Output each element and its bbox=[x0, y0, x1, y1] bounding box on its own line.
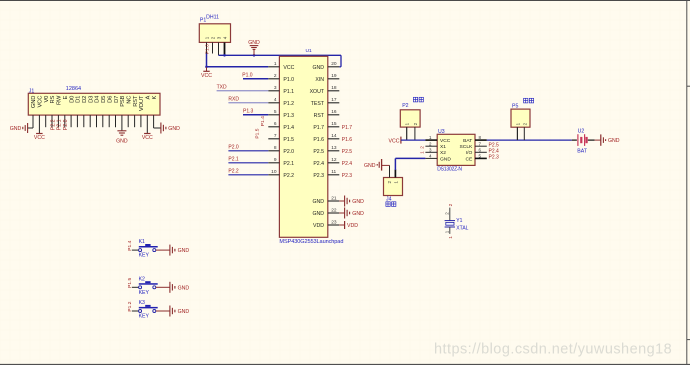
svg-text:VCC: VCC bbox=[440, 138, 451, 144]
header P2 buzzer bbox=[400, 97, 423, 127]
pushbutton K3 KEY bbox=[127, 300, 190, 320]
P5 pin wires down to BAT net bbox=[517, 127, 524, 140]
wire U3 BAT to battery bbox=[487, 139, 572, 141]
svg-text:U3: U3 bbox=[438, 129, 445, 135]
P2 pin wires down to VCC net bbox=[407, 127, 415, 140]
svg-text:17: 17 bbox=[331, 97, 337, 103]
svg-text:GND: GND bbox=[31, 96, 37, 108]
wire J4 pin2 to ground port bbox=[382, 165, 390, 177]
svg-text:P1.3: P1.3 bbox=[243, 109, 254, 115]
wire J1 pin1 to ground bbox=[28, 127, 33, 129]
svg-text:23: 23 bbox=[331, 219, 337, 225]
RTC U3 DS1302 bbox=[437, 129, 475, 173]
svg-text:P1.4: P1.4 bbox=[260, 116, 266, 126]
wire net P1.3 to U1 pin5 bbox=[243, 114, 268, 116]
svg-text:P2.2: P2.2 bbox=[228, 169, 239, 175]
svg-text:J1: J1 bbox=[29, 88, 35, 94]
svg-text:22: 22 bbox=[331, 207, 337, 213]
svg-text:GND: GND bbox=[352, 211, 364, 217]
svg-text:12864: 12864 bbox=[66, 86, 81, 92]
svg-text:VCC: VCC bbox=[389, 138, 400, 144]
wire J4 pin1 to U3 GND pin4 bbox=[395, 158, 425, 177]
svg-text:K1: K1 bbox=[139, 239, 145, 245]
wire DH11 pin1 down to VCC node bbox=[206, 54, 208, 67]
svg-text:Y1: Y1 bbox=[456, 218, 462, 224]
svg-text:I/O: I/O bbox=[466, 150, 473, 156]
VDD power port U1 pin23 bbox=[339, 221, 358, 229]
ground earth symbol above wire near DH11 bbox=[248, 40, 260, 56]
svg-text:16: 16 bbox=[331, 109, 337, 115]
svg-text:GND: GND bbox=[352, 199, 364, 205]
svg-text:K: K bbox=[152, 95, 158, 99]
svg-text:P2.4: P2.4 bbox=[342, 161, 353, 167]
svg-text:P1.2: P1.2 bbox=[283, 101, 294, 107]
svg-text:XTAL: XTAL bbox=[456, 226, 468, 232]
U3 left pin stubs bbox=[425, 135, 451, 162]
svg-text:TEST: TEST bbox=[311, 101, 325, 107]
svg-text:19: 19 bbox=[331, 73, 337, 79]
svg-text:P2.4: P2.4 bbox=[489, 149, 500, 155]
wire J1 pin K to ground bbox=[154, 127, 161, 129]
svg-text:RW: RW bbox=[57, 95, 63, 105]
svg-text:BAT: BAT bbox=[463, 138, 472, 144]
U1 left pin stubs and numbers bbox=[268, 61, 294, 179]
svg-text:P1.0: P1.0 bbox=[283, 77, 294, 83]
svg-text:RST: RST bbox=[133, 95, 139, 107]
wire net P2.2 to U1 pin10 bbox=[228, 174, 268, 176]
svg-text:VCC: VCC bbox=[142, 135, 153, 141]
svg-text:VDD: VDD bbox=[347, 223, 358, 229]
ground power port left of J4 bbox=[364, 159, 382, 171]
VCC power port below DH11 bbox=[201, 67, 212, 79]
svg-text:NC: NC bbox=[126, 96, 132, 104]
svg-text:P2.5: P2.5 bbox=[313, 149, 324, 155]
svg-text:D7: D7 bbox=[114, 96, 120, 103]
svg-text:P1.0: P1.0 bbox=[205, 44, 211, 54]
svg-text:GND: GND bbox=[312, 65, 324, 71]
svg-text:9: 9 bbox=[274, 157, 277, 163]
svg-text:P2.2: P2.2 bbox=[283, 173, 294, 179]
svg-text:VCC: VCC bbox=[283, 65, 294, 71]
svg-text:GND: GND bbox=[440, 156, 451, 162]
svg-text:X1: X1 bbox=[440, 144, 446, 150]
wire VCC node to U1 pin1 bbox=[207, 66, 269, 68]
svg-text:2: 2 bbox=[419, 146, 425, 149]
VCC power port J1 pin2 bbox=[34, 134, 45, 142]
svg-text:P2: P2 bbox=[402, 103, 408, 109]
svg-text:20: 20 bbox=[331, 61, 337, 67]
svg-text:8: 8 bbox=[274, 145, 277, 151]
svg-text:RXD: RXD bbox=[228, 97, 239, 103]
svg-text:P1.6: P1.6 bbox=[313, 137, 324, 143]
pushbutton K2 KEY bbox=[127, 276, 190, 296]
svg-text:GND: GND bbox=[608, 138, 620, 144]
svg-text:3: 3 bbox=[274, 85, 277, 91]
svg-text:P1.6: P1.6 bbox=[342, 137, 353, 143]
svg-text:A: A bbox=[146, 95, 152, 99]
svg-text:5: 5 bbox=[274, 109, 277, 115]
svg-text:P2.2: P2.2 bbox=[50, 119, 56, 130]
DH11 pin stubs bbox=[207, 42, 225, 55]
svg-text:P2.1: P2.1 bbox=[228, 157, 239, 163]
wire ground net along top to U1 pin20 bbox=[219, 55, 342, 67]
svg-text:TXD: TXD bbox=[217, 85, 227, 91]
svg-text:D6: D6 bbox=[107, 96, 113, 103]
svg-text:1: 1 bbox=[448, 236, 454, 239]
svg-text:U2: U2 bbox=[578, 129, 585, 135]
svg-text:14: 14 bbox=[331, 133, 337, 139]
wire net TXD to U1 pin3 bbox=[217, 90, 269, 92]
wire net P2.1 to U1 pin9 bbox=[228, 162, 268, 164]
svg-text:18: 18 bbox=[331, 85, 337, 91]
svg-text:CE: CE bbox=[466, 156, 474, 162]
sensor P1 DH11 bbox=[199, 14, 230, 42]
svg-text:VCC: VCC bbox=[34, 135, 45, 141]
svg-text:P1.4: P1.4 bbox=[283, 125, 294, 131]
svg-text:GND: GND bbox=[312, 199, 324, 205]
header J4 buzzer bbox=[384, 178, 403, 207]
svg-text:P1.7: P1.7 bbox=[342, 125, 353, 131]
svg-text:P1.3: P1.3 bbox=[283, 113, 294, 119]
svg-text:GND: GND bbox=[168, 126, 180, 132]
svg-text:P2.5: P2.5 bbox=[342, 149, 353, 155]
VCC power port J1 pin A bbox=[142, 134, 153, 142]
MCU U1 MSP430G2553 Launchpad bbox=[279, 48, 343, 245]
svg-text:GND: GND bbox=[248, 40, 260, 46]
svg-text:21: 21 bbox=[331, 195, 337, 201]
battery U2 BAT bbox=[572, 129, 595, 155]
svg-text:KEY: KEY bbox=[139, 253, 150, 259]
svg-text:P2.4: P2.4 bbox=[313, 161, 324, 167]
svg-text:GND: GND bbox=[178, 309, 190, 315]
junction DH11 pin4 on ground net bbox=[223, 54, 226, 57]
svg-text:E: E bbox=[63, 95, 69, 99]
svg-text:10: 10 bbox=[271, 169, 277, 175]
svg-text:P1.1: P1.1 bbox=[283, 89, 294, 95]
svg-text:12: 12 bbox=[331, 157, 337, 163]
svg-text:DS1302Z-N: DS1302Z-N bbox=[437, 166, 462, 172]
svg-text:GND: GND bbox=[116, 138, 128, 144]
connector J1 12864 LCD header bbox=[28, 86, 160, 115]
svg-text:P2.0: P2.0 bbox=[63, 119, 69, 130]
svg-text:VDD: VDD bbox=[313, 223, 324, 229]
wire net P1.0 to U1 pin2 bbox=[243, 78, 268, 80]
VCC power port left of U3 bbox=[389, 137, 401, 145]
svg-text:GND: GND bbox=[312, 211, 324, 217]
J1 pin stubs bbox=[33, 115, 154, 133]
svg-text:P5: P5 bbox=[512, 104, 518, 110]
svg-text:15: 15 bbox=[331, 121, 337, 127]
svg-text:U1: U1 bbox=[306, 48, 312, 54]
svg-text:VCC: VCC bbox=[201, 73, 212, 79]
svg-text:DH11: DH11 bbox=[206, 14, 219, 20]
svg-text:KEY: KEY bbox=[139, 290, 150, 296]
svg-text:D3: D3 bbox=[88, 96, 94, 103]
ground power port left of J1 bbox=[10, 123, 28, 133]
svg-text:GND: GND bbox=[10, 126, 22, 132]
svg-text:D1: D1 bbox=[76, 96, 82, 103]
svg-text:GND: GND bbox=[178, 285, 190, 291]
svg-text:4: 4 bbox=[274, 97, 277, 103]
svg-text:V0: V0 bbox=[44, 96, 50, 103]
wire net P2.0 to U1 pin8 bbox=[228, 150, 268, 152]
svg-text:X2: X2 bbox=[440, 150, 446, 156]
svg-text:6: 6 bbox=[274, 121, 277, 127]
svg-text:2: 2 bbox=[274, 73, 277, 79]
svg-text:D4: D4 bbox=[95, 95, 101, 103]
svg-text:P1.2: P1.2 bbox=[127, 301, 133, 311]
svg-text:MSP430G2553Launchpad: MSP430G2553Launchpad bbox=[279, 239, 343, 245]
svg-text:KEY: KEY bbox=[139, 314, 150, 320]
svg-text:D5: D5 bbox=[101, 96, 107, 103]
svg-text:P2.3: P2.3 bbox=[313, 173, 324, 179]
svg-text:P1.5: P1.5 bbox=[283, 137, 294, 143]
svg-text:P2.3: P2.3 bbox=[342, 173, 353, 179]
svg-text:BAT: BAT bbox=[577, 149, 588, 155]
svg-text:P2.5: P2.5 bbox=[489, 143, 500, 149]
svg-text:SCLK: SCLK bbox=[460, 144, 474, 150]
junction VCC node bbox=[205, 66, 208, 69]
svg-text:P2.1: P2.1 bbox=[57, 119, 63, 130]
ground power port U1 pin21 bbox=[339, 196, 364, 207]
svg-text:P2.0: P2.0 bbox=[283, 149, 294, 155]
ground power port right of battery bbox=[595, 134, 620, 145]
svg-text:D2: D2 bbox=[82, 96, 88, 103]
svg-text:11: 11 bbox=[331, 169, 336, 175]
svg-text:P1.7: P1.7 bbox=[313, 125, 324, 131]
pushbutton K1 KEY bbox=[127, 239, 190, 259]
crystal Y1 XTAL bbox=[444, 203, 468, 238]
svg-text:K3: K3 bbox=[139, 300, 145, 306]
svg-text:P1.4: P1.4 bbox=[127, 240, 133, 250]
svg-text:P2.0: P2.0 bbox=[228, 145, 239, 151]
svg-text:PSB: PSB bbox=[120, 95, 126, 106]
U1 bottom-right pin stubs 21 22 23 bbox=[312, 195, 339, 229]
svg-text:GND: GND bbox=[178, 248, 190, 254]
svg-text:VCC: VCC bbox=[38, 96, 44, 108]
svg-text:P1.0: P1.0 bbox=[242, 73, 253, 79]
svg-text:RST: RST bbox=[314, 113, 325, 119]
svg-text:1: 1 bbox=[419, 151, 425, 154]
svg-text:K2: K2 bbox=[139, 276, 145, 282]
svg-text:D0: D0 bbox=[69, 96, 75, 103]
svg-text:P2.1: P2.1 bbox=[283, 161, 294, 167]
svg-text:GND: GND bbox=[364, 163, 376, 169]
svg-text:XOUT: XOUT bbox=[310, 89, 325, 95]
header P5 buzzer bbox=[511, 98, 534, 127]
ground earth symbol J1 PSB pin bbox=[116, 131, 128, 145]
U1 right pin stubs and numbers bbox=[310, 61, 340, 179]
svg-text:1: 1 bbox=[274, 61, 277, 67]
svg-text:RS: RS bbox=[50, 95, 56, 103]
ground power port right of J1 bbox=[161, 123, 180, 134]
wire net RXD to U1 pin4 bbox=[228, 102, 268, 104]
svg-text:P1.5: P1.5 bbox=[254, 128, 260, 138]
svg-text:13: 13 bbox=[331, 145, 337, 151]
svg-text:VOUT: VOUT bbox=[139, 95, 145, 111]
svg-text:P1.5: P1.5 bbox=[127, 278, 133, 288]
ground power port U1 pin22 bbox=[339, 208, 364, 219]
svg-text:XIN: XIN bbox=[315, 77, 324, 83]
svg-text:P2.3: P2.3 bbox=[489, 155, 500, 161]
svg-text:7: 7 bbox=[274, 133, 277, 139]
svg-text:https://blog.csdn.net/yuwushen: https://blog.csdn.net/yuwusheng18 bbox=[434, 342, 672, 358]
junction ground symbol stem bbox=[253, 54, 256, 57]
wire VCC to U3 pin1 bbox=[401, 139, 426, 141]
U3 right pin stubs bbox=[460, 135, 487, 162]
svg-text:2: 2 bbox=[448, 203, 454, 206]
